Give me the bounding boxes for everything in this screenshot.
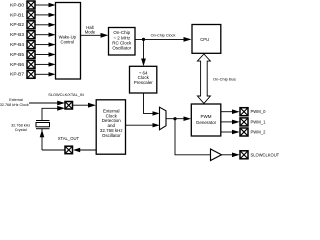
wire External Clock block to mux [126, 123, 160, 127]
wire KP-B1 to Wake-Up Control [35, 13, 56, 17]
bus On-Chip Bus double arrow [197, 54, 210, 103]
wire KP-B4 to Wake-Up Control [35, 42, 56, 46]
block CPU [192, 25, 221, 54]
block Wake-Up Control [56, 3, 81, 80]
svg-text:32.768 kHz: 32.768 kHz [11, 123, 30, 127]
block On-Chip RC Clock Oscillator [109, 28, 136, 56]
pin PWM_2 [240, 128, 248, 136]
wire Halt Mode arrow [81, 33, 109, 38]
wire PWM_0 output [221, 109, 240, 114]
pin KP-B2 [27, 21, 35, 29]
wire buffer to SLOWCLKOUT pin [222, 153, 240, 158]
pin KP-B5 [27, 51, 35, 59]
pin KP-B4 [27, 41, 35, 49]
block PWM Generator [191, 104, 221, 136]
node junction clock [142, 38, 145, 41]
pin KP-B1 [27, 11, 35, 19]
svg-text:PWM_2: PWM_2 [251, 130, 267, 135]
wire KP-B6 to Wake-Up Control [35, 62, 56, 66]
svg-text:Crystal: Crystal [15, 128, 27, 132]
wire PWM_1 output [221, 120, 240, 125]
wire junction to prescaler [141, 39, 146, 66]
svg-text:Mode: Mode [85, 30, 96, 35]
svg-text:KP-B5: KP-B5 [10, 52, 24, 58]
svg-text:Oscillator: Oscillator [102, 133, 121, 138]
block External Clock Detection and 32.768 kHz Oscillator [96, 100, 125, 154]
wire prescaler to mux [144, 93, 160, 116]
svg-text:PWM: PWM [201, 114, 212, 119]
svg-text:KP-B4: KP-B4 [10, 42, 24, 48]
svg-text:PWM_0: PWM_0 [251, 109, 267, 114]
pin KP-B7 [27, 70, 35, 78]
wire KP-B5 to Wake-Up Control [35, 52, 56, 56]
wire KP-B3 to Wake-Up Control [35, 33, 56, 37]
svg-text:KP-B0: KP-B0 [10, 2, 24, 8]
buffer slowclkout driver [211, 149, 222, 161]
svg-text:KP-B2: KP-B2 [10, 22, 24, 28]
wire PWM_2 output [221, 130, 240, 135]
node junction slowclk [173, 117, 176, 120]
svg-text:On-Chip Clock: On-Chip Clock [151, 33, 176, 37]
svg-text:External: External [9, 98, 23, 102]
mux clock select [160, 107, 167, 130]
svg-text:XTAL_OUT: XTAL_OUT [58, 136, 80, 141]
wire slowclk junction to buffer [175, 119, 210, 155]
svg-text:Prescaler: Prescaler [134, 80, 154, 85]
wire On-Chip Clock to CPU [135, 37, 192, 42]
svg-text:KP-B3: KP-B3 [10, 32, 24, 38]
svg-text:SLOWCLK/XTAL_IN: SLOWCLK/XTAL_IN [48, 92, 84, 97]
svg-text:KP-B7: KP-B7 [10, 72, 24, 78]
pin SLOWCLKOUT [240, 151, 248, 159]
wire crystal branch to XTAL_IN pin [42, 106, 65, 121]
wire mux to PWM Generator [166, 116, 191, 121]
svg-text:CPU: CPU [200, 37, 209, 42]
crystal 32.768 kHz [36, 121, 50, 151]
svg-text:KP-B1: KP-B1 [10, 12, 24, 18]
pin KP-B3 [27, 31, 35, 39]
block ÷64 Clock Prescaler [130, 66, 157, 93]
pin KP-B6 [27, 60, 35, 68]
svg-text:Control: Control [61, 39, 75, 44]
wire external clock to XTAL_IN pin [29, 101, 65, 106]
pin KP-B0 [27, 1, 35, 9]
wire XTAL_IN pin to External Clock block [73, 103, 97, 108]
svg-text:32.768 kHz Clock: 32.768 kHz Clock [0, 103, 29, 107]
pin PWM_0 [240, 108, 248, 116]
pin XTAL_OUT [65, 146, 73, 154]
wire KP-B0 to Wake-Up Control [35, 3, 56, 7]
pin SLOWCLK/XTAL_IN [65, 102, 73, 110]
wire XTAL_OUT pin to crystal [42, 149, 65, 151]
svg-text:SLOWCLKOUT: SLOWCLKOUT [251, 152, 280, 157]
wire KP-B7 to Wake-Up Control [35, 72, 56, 76]
svg-text:Oscillator: Oscillator [112, 46, 131, 51]
wire External block to XTAL_OUT pin [73, 148, 96, 152]
svg-text:Generator: Generator [196, 120, 217, 125]
svg-text:KP-B6: KP-B6 [10, 62, 24, 68]
svg-text:On-Chip Bus: On-Chip Bus [213, 76, 236, 81]
svg-text:PWM_1: PWM_1 [251, 119, 267, 124]
pin PWM_1 [240, 118, 248, 126]
wire KP-B2 to Wake-Up Control [35, 23, 56, 27]
